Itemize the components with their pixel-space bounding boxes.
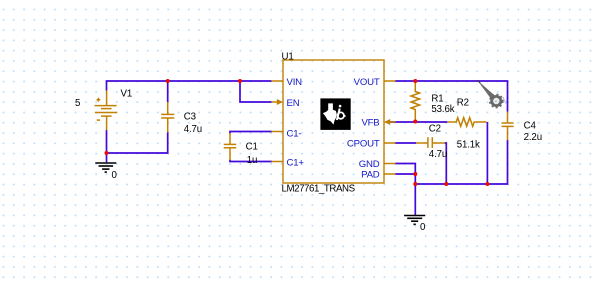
wire C2 to rail — [445, 143, 447, 184]
pin VOUT stub — [384, 80, 396, 82]
svg-text:EN: EN — [287, 98, 300, 109]
svg-text:0: 0 — [112, 170, 118, 181]
svg-text:0: 0 — [420, 222, 426, 233]
svg-text:CPOUT: CPOUT — [347, 138, 380, 149]
wire CPOUT to C2 — [395, 142, 416, 144]
capacitor C2 body — [416, 137, 445, 148]
svg-text:2.2u: 2.2u — [524, 132, 542, 143]
wire bottom rail — [415, 183, 487, 185]
wire EN branch — [240, 81, 272, 102]
svg-text:1u: 1u — [247, 155, 258, 166]
wire VOUT rail — [395, 81, 508, 112]
svg-text:VFB: VFB — [361, 118, 379, 129]
svg-text:V1: V1 — [121, 88, 133, 99]
battery V1 body — [95, 90, 118, 130]
IC U1 LM27761 outline — [283, 60, 384, 183]
resistor R2 body — [447, 118, 486, 127]
wire C4 bottom to rail — [487, 140, 507, 184]
voltage probe body — [490, 95, 503, 108]
ground 2 — [404, 216, 425, 225]
svg-text:VOUT: VOUT — [354, 77, 380, 88]
wire C1+ to chip — [230, 160, 272, 162]
wire bottom-left to C3 — [107, 132, 168, 153]
wire C3 top stub — [167, 81, 169, 102]
capacitor C1 body — [224, 133, 237, 160]
wire GND pin to rail — [395, 164, 415, 185]
pin VFB arrowhead — [384, 119, 390, 125]
svg-text:5: 5 — [75, 98, 80, 109]
wire VFB line — [390, 121, 447, 123]
capacitor C4 body — [502, 112, 514, 141]
svg-text:C1: C1 — [246, 142, 258, 153]
pin CPOUT stub — [384, 142, 396, 144]
svg-text:R2: R2 — [457, 97, 469, 108]
wire V1 bottom — [106, 130, 108, 153]
node rail-R2 — [485, 182, 489, 186]
voltage probe needle — [477, 80, 495, 99]
node PAD — [413, 172, 417, 176]
svg-text:C2: C2 — [429, 124, 441, 135]
node top-EN — [238, 79, 242, 83]
wire PAD pin — [395, 173, 415, 175]
pin EN stub — [271, 101, 277, 103]
svg-text:C1+: C1+ — [287, 158, 305, 169]
pin PAD stub — [384, 173, 396, 175]
svg-text:VIN: VIN — [287, 77, 303, 88]
ground 1 — [95, 163, 116, 172]
pin VFB stub — [390, 121, 396, 123]
svg-text:53.6k: 53.6k — [431, 104, 454, 115]
TI logo white bug — [323, 103, 346, 124]
svg-text:51.1k: 51.1k — [457, 139, 480, 150]
node gnd1 — [105, 151, 109, 155]
junction dots — [105, 79, 490, 186]
pin EN arrowhead — [277, 99, 283, 105]
pin VIN stub — [271, 80, 283, 82]
svg-text:4.7u: 4.7u — [184, 124, 202, 135]
svg-text:R1: R1 — [431, 94, 443, 105]
wire ground1 stem — [106, 153, 108, 162]
resistor R1 body — [411, 83, 420, 121]
svg-text:C4: C4 — [524, 120, 537, 131]
TI logo black box — [320, 98, 350, 129]
capacitor C3 body — [161, 102, 174, 132]
wire top rail V1 to VIN — [107, 81, 272, 91]
pin C1+ stub — [271, 161, 283, 163]
pin GND stub — [384, 163, 396, 165]
svg-text:PAD: PAD — [361, 170, 380, 181]
svg-text:GND: GND — [359, 159, 380, 170]
node rail-C2 — [444, 182, 448, 186]
svg-text:LM27761_TRANS: LM27761_TRANS — [282, 184, 356, 195]
node rail-gnd2 — [413, 182, 417, 186]
pin C1- stub — [271, 131, 283, 133]
node VOUT-R1 — [413, 79, 417, 83]
svg-text:C3: C3 — [184, 112, 196, 123]
wire ground2 stem — [414, 184, 416, 215]
svg-text:C1-: C1- — [287, 128, 302, 139]
wire R2 drop — [486, 122, 488, 184]
node VFB-R1 — [413, 120, 417, 124]
node top-C3 — [166, 79, 170, 83]
wire C1- to chip — [230, 132, 272, 134]
svg-text:4.7u: 4.7u — [429, 149, 447, 160]
svg-text:U1: U1 — [282, 51, 294, 62]
